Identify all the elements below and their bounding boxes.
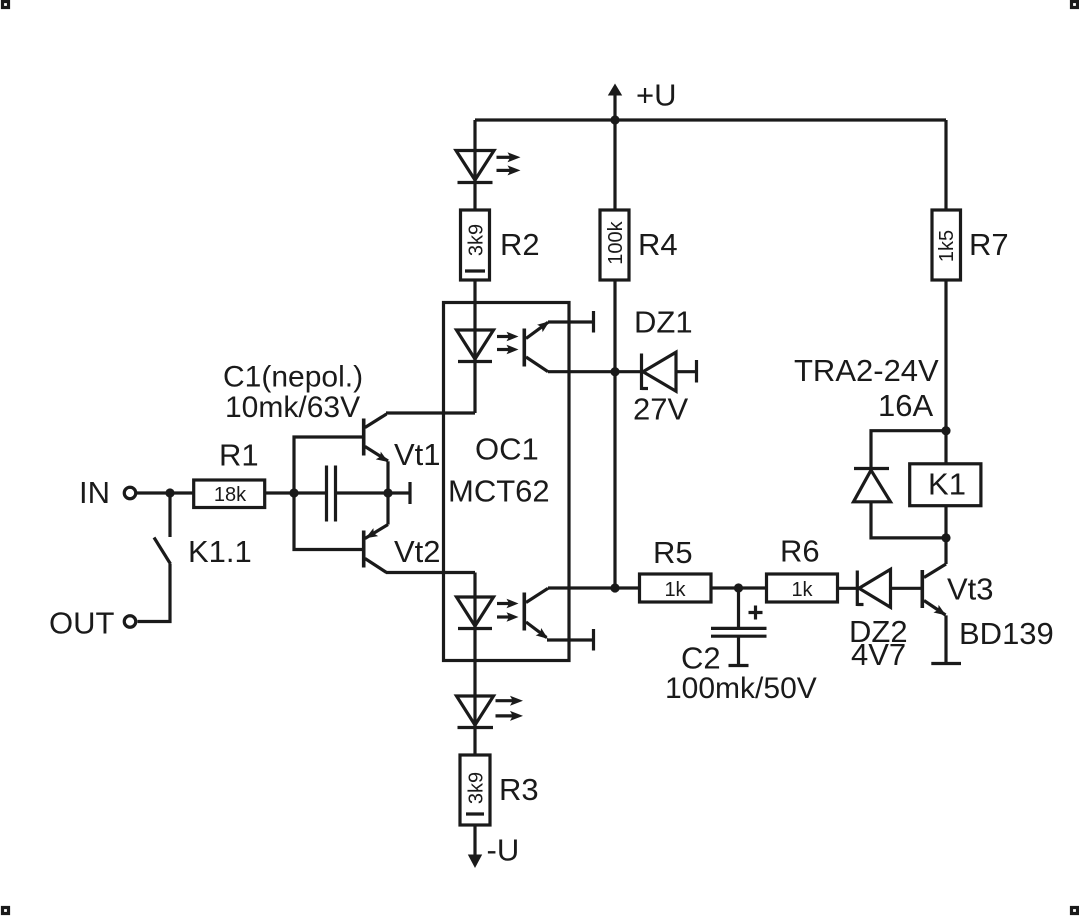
svg-text:DZ1: DZ1 [634,305,693,340]
node C2 [734,583,743,592]
resistor R2 [461,210,540,280]
label TRA2-24V 16A [794,353,939,423]
LED LED1 [456,151,521,183]
phototransistor OC1 top [524,318,552,372]
wire OC1 to R5 [569,586,640,589]
LED OC1 bottom [457,597,519,629]
terminal OC1 top emitter [548,311,594,333]
transistor Vt1 [364,414,441,472]
wire OC1 LED bottom anode [473,573,476,629]
svg-text:R4: R4 [638,227,678,262]
node R4/R5 [610,583,619,592]
wire Vt1 emitter [386,461,389,493]
svg-text:-U: -U [487,833,520,868]
node DZ1 [610,367,619,376]
capacitor C2 [665,588,817,705]
wire R4 rail bottom [613,280,616,588]
terminal IN [79,475,136,510]
terminal OC1 bottom emitter [547,629,594,651]
svg-text:C2: C2 [681,641,721,676]
resistor R6 [767,534,838,603]
wire R7 top [944,120,947,210]
wire Vt2 emitter [386,493,389,525]
svg-text:MCT62: MCT62 [448,474,550,509]
wire Vt1 collector to OC1 LED [386,411,475,414]
transistor Vt2 [363,525,440,573]
svg-text:OC1: OC1 [475,432,539,467]
power -U [468,825,519,868]
wire +U rail [475,118,946,121]
LED OC1 top [457,330,519,362]
wire to diode top [871,431,946,469]
label C1 [223,361,363,425]
wire R7 to relay [944,280,947,431]
svg-text:R5: R5 [653,535,693,570]
resistor R3 [460,755,539,825]
svg-text:TRA2-24V: TRA2-24V [794,353,939,388]
node R1/C1 [289,488,298,497]
wire R4 rail top [613,120,616,210]
wire base bracket [294,437,362,550]
terminal Vt3 emitter [931,615,961,663]
wire K1 top [944,431,947,464]
terminal emitters output [388,482,410,504]
optocoupler OC1 body [444,303,570,661]
svg-text:100k: 100k [605,220,627,264]
wire R1 to C1 [265,491,327,494]
power +U [608,78,677,121]
wire C1 to emitters node [336,491,389,494]
relay K1 [910,464,981,506]
wire LED1 to R2 [473,183,476,211]
switch K1.1 [138,493,252,622]
wire Vt3 collector [944,538,947,564]
svg-text:R1: R1 [219,438,259,473]
capacitor C1 [327,466,336,522]
label OC1 MCT62 [448,432,550,509]
svg-text:R2: R2 [500,227,540,262]
wire R2 to OC1 LED [473,280,476,362]
resistor R4 [600,210,678,280]
svg-text:3k9: 3k9 [465,224,487,256]
node relay bottom [941,533,950,542]
svg-text:C1(nepol.): C1(nepol.) [223,361,363,394]
diode VD flyback [854,469,891,502]
svg-text:16A: 16A [878,388,933,423]
resistor R1 [194,438,265,508]
zener diode DZ1 [633,305,697,427]
wire R6 to DZ2 [838,587,858,590]
wire K1 bottom [944,506,947,538]
wire LED3 to R3 [473,728,476,756]
svg-text:10mk/63V: 10mk/63V [225,391,360,424]
node relay top [941,426,950,435]
wire OC1 to LED3 [473,629,476,728]
svg-text:1k5: 1k5 [936,230,958,262]
wire OC1 top collector to DZ1 node [548,370,642,373]
svg-text:1k: 1k [791,579,813,601]
svg-text:Vt1: Vt1 [394,437,441,472]
svg-text:4V7: 4V7 [851,637,906,672]
resistor R7 [932,210,1009,280]
svg-text:R6: R6 [780,534,820,569]
wire IN to R1 [137,491,194,494]
wire OC1 bottom collector to R5 node [548,586,569,589]
svg-text:K1.1: K1.1 [188,534,252,569]
LED LED3 [457,696,524,728]
svg-text:3k9: 3k9 [465,772,487,804]
svg-text:R3: R3 [499,772,539,807]
svg-text:R7: R7 [969,227,1009,262]
wire +U to LED1 [473,120,476,183]
phototransistor OC1 bottom [524,588,550,642]
svg-text:27V: 27V [633,392,688,427]
node +U junction [610,115,619,124]
wire OC1 LED top cathode [473,362,476,414]
zener diode DZ2 [849,569,921,672]
wire diode bottom [871,502,946,538]
svg-text:IN: IN [79,475,110,510]
svg-text:+U: +U [636,78,677,113]
svg-text:1k: 1k [664,579,686,601]
svg-text:100mk/50V: 100mk/50V [665,672,817,705]
svg-text:OUT: OUT [49,606,115,641]
node IN junction [165,488,174,497]
resistor R5 [640,535,712,602]
svg-text:18k: 18k [214,484,247,506]
wire Vt2 collector to OC1 LED [386,571,475,574]
node emitters [383,488,392,497]
svg-text:K1: K1 [928,467,966,502]
svg-text:Vt3: Vt3 [947,572,994,607]
transistor Vt3 [922,564,1053,651]
terminal OUT [49,606,136,641]
svg-text:BD139: BD139 [959,616,1054,651]
svg-text:Vt2: Vt2 [394,534,441,569]
wire R5 to R6 [711,586,767,589]
